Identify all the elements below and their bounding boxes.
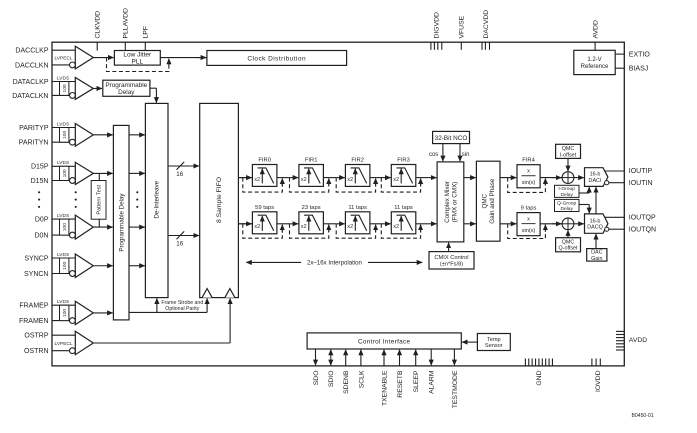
svg-text:8 Sample FIFO: 8 Sample FIFO (216, 177, 223, 223)
svg-text:Q-offset: Q-offset (558, 246, 578, 252)
svg-text:RESETB: RESETB (397, 370, 404, 398)
svg-text:11 taps: 11 taps (394, 205, 413, 211)
svg-text:VFUSE: VFUSE (459, 15, 466, 38)
svg-text:DIGVDD: DIGVDD (434, 12, 441, 39)
svg-text:16-b: 16-b (590, 172, 601, 178)
svg-text:DATACLKP: DATACLKP (13, 79, 49, 86)
svg-text:IOVDD: IOVDD (595, 370, 602, 392)
svg-text:IOUTQP: IOUTQP (629, 215, 656, 222)
svg-text:CMIX Control: CMIX Control (434, 255, 468, 261)
svg-text:Delay: Delay (560, 206, 573, 212)
svg-text:SLEEP: SLEEP (413, 370, 420, 392)
svg-text:Temp: Temp (487, 337, 501, 343)
svg-text:LVPECL: LVPECL (55, 56, 73, 62)
svg-text:Q-Group: Q-Group (557, 200, 576, 206)
svg-text:AVDD: AVDD (629, 337, 647, 344)
svg-text:x2: x2 (301, 177, 307, 183)
svg-text:x: x (527, 217, 530, 223)
svg-text:FIR1: FIR1 (305, 158, 318, 164)
svg-text:100: 100 (62, 223, 68, 231)
svg-text:100: 100 (62, 261, 68, 269)
svg-text:16: 16 (176, 240, 183, 247)
svg-text:LVDS: LVDS (57, 75, 69, 81)
svg-text:EXTIO: EXTIO (629, 51, 651, 58)
svg-text:SCLK: SCLK (358, 370, 365, 388)
svg-text:D15N: D15N (31, 178, 49, 185)
svg-text:Control Interface: Control Interface (358, 339, 410, 346)
svg-text:32-Bit NCO: 32-Bit NCO (435, 135, 468, 142)
svg-text:PARITYP: PARITYP (19, 125, 49, 132)
svg-text:9 taps: 9 taps (521, 206, 537, 212)
svg-text:LVDS: LVDS (57, 252, 69, 258)
svg-text:LVDS: LVDS (57, 213, 69, 219)
svg-text:LVDS: LVDS (57, 160, 69, 166)
svg-text:BIASJ: BIASJ (629, 65, 648, 72)
svg-text:Reference: Reference (581, 64, 609, 70)
svg-text:SYNCN: SYNCN (24, 271, 49, 278)
svg-text:IOUTIP: IOUTIP (629, 168, 653, 175)
svg-text:FIR2: FIR2 (351, 158, 364, 164)
svg-text:B0450-01: B0450-01 (632, 413, 654, 419)
svg-text:LVPECL: LVPECL (55, 341, 73, 347)
svg-text:FIR3: FIR3 (397, 158, 410, 164)
svg-text:100: 100 (62, 169, 68, 177)
svg-text:D15P: D15P (31, 164, 49, 171)
svg-text:D0N: D0N (34, 233, 48, 240)
svg-text:Delay: Delay (560, 192, 573, 198)
svg-text:x2: x2 (254, 224, 260, 230)
svg-text:16-b: 16-b (590, 218, 601, 224)
svg-text:TESTMODE: TESTMODE (452, 370, 459, 408)
svg-text:DACVDD: DACVDD (483, 10, 490, 39)
svg-text:11 taps: 11 taps (348, 205, 367, 211)
svg-text:D0P: D0P (35, 217, 49, 224)
svg-text:sin(x): sin(x) (522, 228, 536, 234)
svg-text:DACCLKN: DACCLKN (15, 62, 48, 69)
svg-text:16: 16 (176, 171, 183, 178)
svg-text:IOUTIN: IOUTIN (629, 180, 653, 187)
svg-text:1.2-V: 1.2-V (587, 57, 601, 63)
svg-text:CLKVDD: CLKVDD (95, 11, 102, 39)
svg-text:Sensor: Sensor (485, 343, 503, 349)
svg-text:Programmable: Programmable (105, 82, 147, 89)
svg-text:Clock Distribution: Clock Distribution (247, 55, 306, 62)
svg-text:I-offset: I-offset (560, 152, 577, 158)
svg-text:x: x (527, 169, 530, 175)
svg-text:DACQ: DACQ (587, 225, 603, 231)
svg-text:59 taps: 59 taps (255, 205, 274, 211)
svg-text:Complex Mixer: Complex Mixer (444, 181, 451, 223)
svg-text:(±n*Fs/8): (±n*Fs/8) (440, 262, 463, 268)
svg-text:FRAMEN: FRAMEN (19, 318, 49, 325)
svg-text:x2: x2 (393, 177, 399, 183)
svg-text:100: 100 (62, 131, 68, 139)
svg-text:cos: cos (429, 152, 438, 158)
svg-text:x2: x2 (347, 224, 353, 230)
svg-text:23 taps: 23 taps (302, 205, 321, 211)
svg-text:De-Interleave: De-Interleave (154, 180, 161, 218)
svg-text:x2: x2 (393, 224, 399, 230)
svg-text:DAC: DAC (591, 250, 602, 256)
svg-text:Delay: Delay (118, 89, 135, 96)
svg-text:FIR0: FIR0 (258, 158, 271, 164)
svg-text:AVDD: AVDD (592, 20, 599, 38)
svg-text:100: 100 (62, 84, 68, 92)
svg-text:Gain: Gain (591, 256, 602, 262)
svg-text:sin(x): sin(x) (522, 180, 536, 186)
svg-text:PLL: PLL (132, 59, 144, 66)
svg-text:SYNCP: SYNCP (24, 255, 48, 262)
svg-text:x2: x2 (347, 177, 353, 183)
svg-text:FIR4: FIR4 (522, 158, 535, 164)
svg-text:PARITYN: PARITYN (19, 140, 49, 147)
svg-text:PLLAVDD: PLLAVDD (123, 8, 130, 39)
svg-text:QMC: QMC (562, 239, 575, 245)
svg-text:Low Jitter: Low Jitter (123, 51, 152, 58)
svg-text:SDIO: SDIO (328, 371, 335, 388)
svg-text:IOUTQN: IOUTQN (629, 226, 656, 233)
svg-text:SDO: SDO (313, 371, 320, 386)
svg-text:QMC: QMC (562, 146, 575, 152)
svg-text:Pattern Test: Pattern Test (97, 184, 103, 214)
svg-text:OSTRN: OSTRN (24, 348, 49, 355)
svg-text:Gain and Phase: Gain and Phase (489, 178, 496, 224)
svg-text:LVDS: LVDS (57, 299, 69, 305)
svg-text:Optional Parity: Optional Parity (165, 306, 199, 312)
svg-text:QMC: QMC (482, 193, 489, 208)
svg-text:LPF: LPF (143, 26, 150, 38)
svg-text:FRAMEP: FRAMEP (19, 303, 49, 310)
svg-text:Programmable Delay: Programmable Delay (119, 193, 126, 252)
svg-text:sin: sin (462, 152, 470, 158)
svg-text:x2: x2 (254, 177, 260, 183)
svg-text:2x–16x Interpolation: 2x–16x Interpolation (307, 260, 362, 267)
svg-text:DATACLKN: DATACLKN (12, 93, 48, 100)
svg-text:TXENABLE: TXENABLE (381, 370, 388, 406)
svg-text:100: 100 (62, 309, 68, 317)
svg-text:DACI: DACI (589, 178, 602, 184)
svg-text:x2: x2 (301, 224, 307, 230)
svg-text:DACCLKP: DACCLKP (15, 48, 48, 55)
svg-text:SDENB: SDENB (343, 370, 350, 394)
svg-text:ALARM: ALARM (429, 370, 436, 394)
svg-text:(FMX or CMX): (FMX or CMX) (451, 182, 458, 223)
svg-text:I-Group: I-Group (558, 186, 575, 192)
svg-text:OSTRP: OSTRP (24, 333, 48, 340)
svg-text:LVDS: LVDS (57, 121, 69, 127)
svg-text:GND: GND (536, 370, 543, 385)
